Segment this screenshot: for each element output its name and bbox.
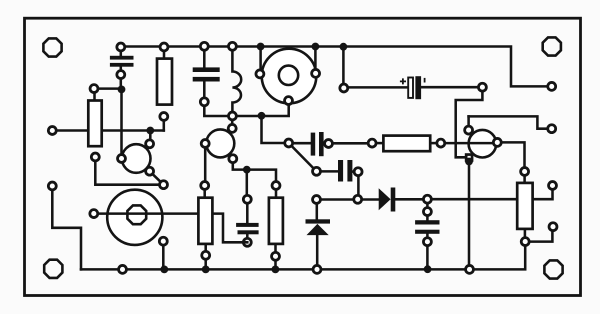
node ground rail pad 3 (pad) bbox=[466, 265, 474, 273]
node C1 bottom pad (pad) bbox=[117, 71, 125, 79]
wire D1 cathode lead bbox=[316, 200, 319, 220]
node R1 bottom pad (pad) bbox=[91, 153, 99, 161]
wire C7 left stub bbox=[289, 142, 311, 145]
resistor R3 bbox=[198, 198, 212, 244]
node Q5 top pad (pad) bbox=[465, 126, 473, 134]
wire R7 top stub bbox=[523, 172, 526, 183]
transistor Q3 (small, middle) bbox=[206, 129, 234, 157]
node R5 left pad (pad) bbox=[368, 139, 376, 147]
junction rail-R3 bbox=[202, 266, 210, 274]
wire D1 anode lead bbox=[316, 235, 319, 269]
wire pad to C1 junction bbox=[94, 87, 122, 90]
node output pad P3 (pad) bbox=[549, 182, 557, 190]
node C6 bottom pad (pad) bbox=[423, 238, 431, 246]
node C7 left pad (pad) bbox=[285, 139, 293, 147]
node R7 top pad (pad) bbox=[521, 168, 529, 176]
mounting hole top-right bbox=[543, 37, 561, 55]
node Q1 bottom pad (pad) bbox=[285, 97, 293, 105]
capacitor C6 bbox=[415, 220, 439, 234]
node input pad J1 (pad) bbox=[48, 127, 56, 135]
node R2 top pad (pad) bbox=[160, 43, 168, 51]
wire C6 top lead bbox=[426, 199, 429, 220]
node ground rail pad 2 (pad) bbox=[313, 265, 321, 273]
node C1 top pad (pad) bbox=[117, 43, 125, 51]
wire R2 top stub bbox=[163, 47, 166, 59]
node Q3 top pad (pad) bbox=[228, 124, 236, 132]
node C5 top pad (pad) bbox=[243, 195, 251, 203]
resistor R5 bbox=[383, 136, 430, 152]
node R4 bottom pad (pad) bbox=[272, 252, 280, 260]
node output pad P4 (pad) bbox=[549, 223, 557, 231]
junction rail-Q4 bbox=[160, 266, 168, 274]
resistor R1 bbox=[88, 101, 101, 147]
wire input run under R1 bbox=[52, 129, 164, 132]
junction rail-R4 bbox=[272, 266, 280, 274]
node Q4 bottom-right pad (pad) bbox=[159, 237, 167, 245]
node ground rail pad 1 (pad) bbox=[119, 265, 127, 273]
junction C1 bottom node bbox=[118, 86, 126, 94]
wire C6 bottom lead bbox=[426, 234, 429, 269]
wire L1 bottom to Q3 top pad bbox=[231, 116, 234, 128]
wire left pad to ground rail bbox=[52, 186, 81, 269]
wire junction to R4 top bbox=[247, 170, 276, 186]
wire R3 bottom link bbox=[204, 244, 207, 270]
wire C3 right stub bbox=[352, 170, 358, 173]
mounting hole bottom-left bbox=[44, 260, 62, 278]
node C2 top pad (pad) bbox=[200, 42, 208, 50]
wire C7 to R5 bbox=[324, 142, 373, 145]
node L1 bottom pad (pad) bbox=[228, 112, 236, 120]
wire R3 top stub bbox=[203, 186, 206, 198]
node C7 right pad (pad) bbox=[325, 140, 333, 148]
node Q2 left pad (pad) bbox=[118, 155, 126, 163]
wire C7 pad diagonal to C3 bbox=[289, 143, 317, 171]
wire C4 left lead bbox=[344, 86, 408, 89]
wire Q3 left pad down to R3 bbox=[204, 144, 207, 186]
wire R2 bottom link bbox=[163, 117, 166, 131]
wire junction down to Q2 left pad bbox=[120, 89, 123, 158]
capacitor C3 bbox=[338, 160, 352, 182]
node C3 right pad (pad) bbox=[354, 168, 362, 176]
transistor Q1 (large, top) bbox=[262, 49, 317, 104]
wire C5 top stub bbox=[246, 199, 249, 223]
mounting hole bottom-right bbox=[544, 260, 562, 278]
mounting hole top-left bbox=[43, 38, 61, 56]
wire R1 bottom run bbox=[95, 157, 163, 185]
capacitor C5 bbox=[236, 223, 259, 234]
wire C1 top stub bbox=[120, 47, 123, 56]
node Q5 bottom pad (square) bbox=[465, 153, 474, 162]
node C6 upper pad (pad) bbox=[423, 208, 431, 216]
junction Q1 base node bbox=[258, 112, 266, 120]
inductor L1 bbox=[232, 47, 241, 117]
diode D2 bbox=[379, 188, 396, 212]
node D2 anode pad (pad) bbox=[354, 195, 362, 203]
node Q1 left pad (pad) bbox=[256, 70, 264, 78]
junction rail-Q1 left bbox=[257, 43, 265, 51]
wire ground rail bbox=[81, 242, 525, 270]
wire junction to C7 left pad bbox=[262, 116, 289, 143]
node Q2 bottom pad (pad) bbox=[146, 167, 154, 175]
node output pad P2 (pad) bbox=[548, 125, 556, 133]
node R2 bottom pad (pad) bbox=[160, 113, 168, 121]
node output pad P1 (pad) bbox=[548, 82, 556, 90]
wire output run under R7 bbox=[427, 186, 552, 200]
node Q3 left pad (pad) bbox=[201, 140, 209, 148]
wire C4 to Q5 loop bbox=[456, 87, 483, 157]
wire Q5 emitter to rail bbox=[468, 157, 471, 269]
resistor R7 bbox=[517, 183, 532, 229]
node Q1 right pad (pad) bbox=[312, 69, 320, 77]
wire D2 cathode run bbox=[395, 198, 427, 201]
capacitor C7 bbox=[311, 132, 324, 156]
capacitor C1 bbox=[110, 56, 134, 67]
wire C5 bottom stub bbox=[246, 234, 249, 242]
wire Q5 collector to R7 bbox=[497, 142, 524, 171]
node C4 right pad (pad) bbox=[478, 83, 486, 91]
node R7 bottom pad (pad) bbox=[521, 238, 529, 246]
wire R7 bottom to right pad bbox=[525, 227, 552, 242]
wire Q5 top stub bbox=[467, 116, 470, 130]
junction rail-C4 bbox=[340, 43, 348, 51]
node Q4 left pad (pad) bbox=[90, 210, 98, 218]
wire Q2 bottom diagonal bbox=[150, 171, 164, 185]
node Q4 top-right pad (pad) bbox=[160, 181, 168, 189]
node C3 left pad (pad) bbox=[313, 167, 321, 175]
junction R2-Q2 node bbox=[146, 127, 154, 135]
node C6 top pad (pad) bbox=[423, 195, 431, 203]
transistor Q4 (large, bottom-left) bbox=[107, 190, 162, 245]
wire R5 left stub bbox=[372, 142, 383, 145]
transistor Q2 (small, left) bbox=[122, 144, 151, 173]
wire Q5 base run to right pad bbox=[469, 116, 552, 128]
node C5 bottom pad (pad) bbox=[243, 238, 251, 246]
junction rail-C6 bbox=[424, 265, 432, 273]
node R1 top node pad (pad) bbox=[90, 85, 98, 93]
node Q3 bottom pad (pad) bbox=[229, 155, 237, 163]
capacitor C2 bbox=[193, 67, 220, 81]
node input pad J2 (pad) bbox=[48, 182, 56, 190]
wire C3 left stub bbox=[317, 170, 339, 173]
node C2 bottom pad (pad) bbox=[200, 98, 208, 106]
node Q5 right pad (pad) bbox=[493, 138, 501, 146]
capacitor C4 electrolytic bbox=[400, 76, 425, 99]
node L1 top pad (pad) bbox=[228, 42, 236, 50]
wire R4 bottom link bbox=[274, 244, 277, 270]
node R5 right pad (pad) bbox=[437, 139, 445, 147]
wire Q3 bottom pad to junction bbox=[233, 159, 247, 170]
wire C1 bottom lead bbox=[120, 66, 123, 89]
junction Q3-R4-C5 node bbox=[243, 166, 251, 174]
resistor R4 bbox=[269, 198, 283, 244]
diode D1 bbox=[306, 219, 331, 235]
wire rail to Q1 left pad bbox=[259, 47, 262, 74]
node D1-D2 node pad (pad) bbox=[313, 196, 321, 204]
node R4 top pad (pad) bbox=[272, 182, 280, 190]
junction Q5 emitter node bbox=[465, 158, 473, 166]
wire C4 right lead bbox=[421, 86, 482, 89]
node Q2 top pad (pad) bbox=[146, 140, 154, 148]
wire junction to C5 top bbox=[246, 170, 249, 200]
wire R7 bottom stub bbox=[524, 229, 527, 242]
wire Q4 wiper line to C5 bbox=[94, 214, 248, 243]
wire R5 right stub bbox=[430, 142, 441, 145]
wire rail down to C4 bbox=[342, 47, 345, 88]
wire Q5 crossing line bbox=[441, 142, 498, 145]
wire rail to Q1 right pad bbox=[314, 47, 317, 74]
wire C3 down to D2 node bbox=[357, 172, 360, 200]
wire C2 top lead bbox=[203, 47, 206, 68]
wire R1 top stub bbox=[93, 89, 96, 101]
wire R4 top stub bbox=[275, 186, 278, 198]
wire Q3 bottom to rail bbox=[162, 241, 165, 269]
node R3 top pad (pad) bbox=[201, 182, 209, 190]
wire C2 bottom run to Q1 base bbox=[204, 82, 288, 116]
junction rail-Q1 right bbox=[312, 43, 320, 51]
resistor R2 bbox=[157, 59, 172, 105]
node R3 bottom pad (pad) bbox=[202, 251, 210, 259]
wire down to Q2 top pad bbox=[149, 131, 152, 144]
transistor Q5 (right) bbox=[469, 130, 497, 158]
wire top supply rail bbox=[121, 47, 552, 87]
node C4 left pad (pad) bbox=[340, 84, 348, 92]
wire D2 anode run bbox=[317, 198, 379, 201]
